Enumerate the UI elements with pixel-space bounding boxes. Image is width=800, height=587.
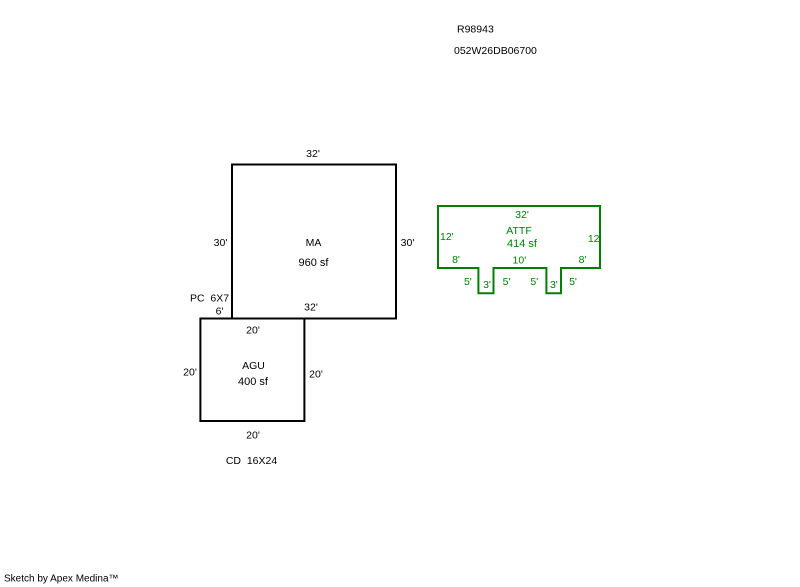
svg-text:12': 12' xyxy=(588,233,602,245)
svg-text:20': 20' xyxy=(246,325,260,337)
svg-text:8': 8' xyxy=(579,254,587,266)
svg-text:20': 20' xyxy=(183,367,197,379)
AGU building outline xyxy=(200,319,304,422)
svg-text:5': 5' xyxy=(464,276,472,288)
svg-text:32': 32' xyxy=(304,302,318,314)
svg-text:052W26DB06700: 052W26DB06700 xyxy=(454,45,537,57)
svg-text:R98943: R98943 xyxy=(457,24,494,36)
svg-text:400 sf: 400 sf xyxy=(238,376,269,388)
ATTF building outline (green) xyxy=(438,206,600,293)
svg-text:414 sf: 414 sf xyxy=(507,238,538,250)
svg-text:3': 3' xyxy=(550,279,558,291)
svg-text:10': 10' xyxy=(513,255,527,267)
svg-text:MA: MA xyxy=(306,237,322,249)
svg-text:Sketch by Apex Medina™: Sketch by Apex Medina™ xyxy=(4,574,119,585)
svg-text:20': 20' xyxy=(309,369,323,381)
svg-text:5': 5' xyxy=(530,276,538,288)
svg-text:960 sf: 960 sf xyxy=(299,257,330,269)
svg-text:30': 30' xyxy=(214,237,228,249)
svg-text:12': 12' xyxy=(440,231,454,243)
svg-text:8': 8' xyxy=(452,254,460,266)
svg-text:PC 6X7: PC 6X7 xyxy=(190,293,229,305)
svg-text:ATTF: ATTF xyxy=(506,225,531,237)
svg-text:32': 32' xyxy=(515,209,529,221)
svg-text:5': 5' xyxy=(569,276,577,288)
svg-text:5': 5' xyxy=(503,276,511,288)
MA building outline xyxy=(232,165,396,319)
svg-text:32': 32' xyxy=(306,148,320,160)
svg-text:AGU: AGU xyxy=(242,360,265,372)
svg-text:CD 16X24: CD 16X24 xyxy=(226,455,278,467)
svg-text:3': 3' xyxy=(483,279,491,291)
svg-text:30': 30' xyxy=(401,237,415,249)
svg-text:20': 20' xyxy=(246,430,260,442)
svg-text:6': 6' xyxy=(216,306,224,318)
